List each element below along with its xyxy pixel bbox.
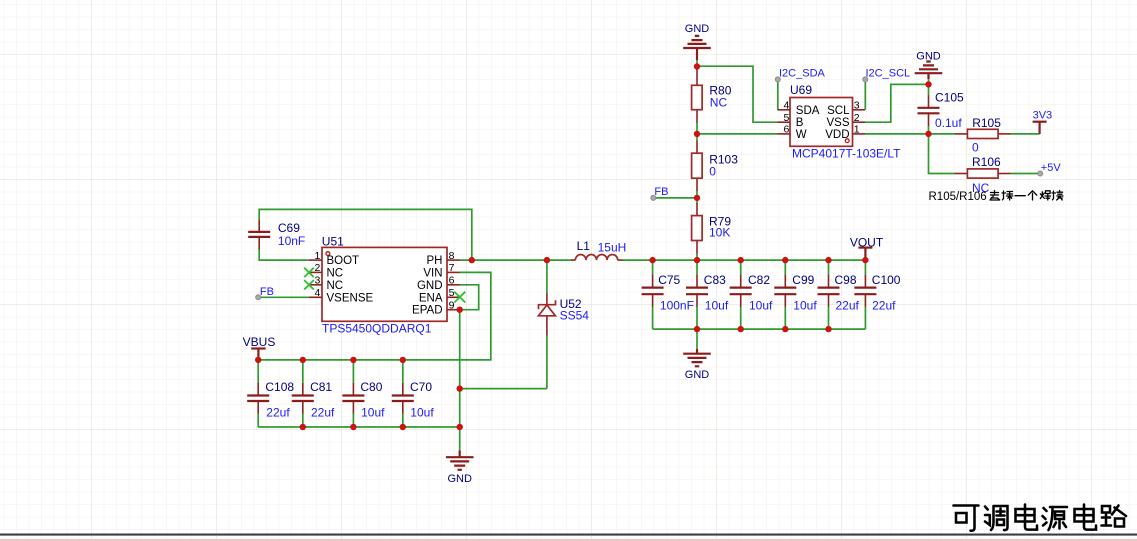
svg-text:1: 1 xyxy=(854,124,860,136)
U51 pin 4 VSENSE xyxy=(309,296,322,298)
junction node C99 bottom xyxy=(782,326,788,332)
capacitor C69 xyxy=(248,232,270,237)
wire GND4 stem xyxy=(459,427,461,457)
junction node PH xyxy=(469,257,475,263)
svg-text:B: B xyxy=(796,117,804,129)
node I2C_SDA pin dot xyxy=(775,77,780,82)
junction node VOUT xyxy=(862,257,868,263)
svg-text:BOOT: BOOT xyxy=(327,255,360,267)
svg-text:R105: R105 xyxy=(972,116,1001,130)
svg-text:10uf: 10uf xyxy=(793,299,817,313)
wire output cap C100 leads xyxy=(864,260,866,329)
title char 电 xyxy=(1016,505,1038,530)
resistor R79 xyxy=(692,216,703,241)
resistor R105 xyxy=(967,129,998,138)
capacitor C83 xyxy=(686,288,708,295)
wire GND3 stem xyxy=(696,329,698,354)
svg-text:15uH: 15uH xyxy=(598,240,627,254)
junction node W wiper xyxy=(694,131,700,137)
sheet border red line bottom edge xyxy=(0,539,1137,541)
svg-text:4: 4 xyxy=(314,287,320,299)
svg-text:10K: 10K xyxy=(709,225,730,239)
svg-text:SS54: SS54 xyxy=(560,309,590,323)
svg-text:+5V: +5V xyxy=(1041,162,1062,174)
svg-text:GND: GND xyxy=(417,280,443,292)
capacitor C100 xyxy=(854,288,876,295)
note char 接 xyxy=(1052,191,1063,201)
svg-text:FB: FB xyxy=(654,186,668,198)
U51 pin 9 EPAD xyxy=(447,309,460,311)
title char 路 xyxy=(1102,506,1127,527)
junction node VBUS/C108 xyxy=(255,357,261,363)
ground GND1 (flipped, top of R80 chain) xyxy=(683,36,711,60)
wire L1 to VOUT rail xyxy=(622,259,865,261)
wire I2C_SCL to U69 pin3 xyxy=(864,79,866,109)
junction node ground rail left xyxy=(457,424,463,430)
capacitor C108 xyxy=(247,396,269,402)
resistor R106 xyxy=(967,169,998,178)
capacitor C82 xyxy=(730,288,752,295)
junction node C81 bottom xyxy=(300,424,306,430)
wire C69 bottom lead to U51 pin1 BOOT xyxy=(259,237,309,260)
svg-text:3: 3 xyxy=(314,275,320,287)
svg-text:I2C_SCL: I2C_SCL xyxy=(866,67,911,79)
U51 pin 7 VIN xyxy=(447,271,460,273)
junction node C82 bottom xyxy=(738,326,744,332)
note char 个 xyxy=(1028,191,1037,200)
svg-text:9: 9 xyxy=(449,300,455,312)
svg-text:6: 6 xyxy=(449,275,455,287)
sheet border bottom line xyxy=(0,534,1137,536)
wire node down to R106 left lead xyxy=(929,134,968,174)
svg-text:VSENSE: VSENSE xyxy=(327,292,374,304)
svg-text:10uf: 10uf xyxy=(361,406,385,420)
capacitor C99 xyxy=(774,288,796,295)
svg-text:VSS: VSS xyxy=(826,117,849,129)
wire C70 leads xyxy=(402,360,404,427)
note char 选 xyxy=(990,191,1000,201)
svg-text:3V3: 3V3 xyxy=(1033,110,1053,122)
junction node C98 top xyxy=(825,257,831,263)
svg-text:100nF: 100nF xyxy=(660,299,694,313)
wire U51 pin6 GND loop to EPAD xyxy=(459,285,478,310)
wire R79 lead bottom xyxy=(696,241,698,261)
svg-text:U69: U69 xyxy=(790,83,812,97)
wire C105 lead top xyxy=(928,84,930,107)
no-connect flag U51 pin5 ENA xyxy=(454,292,465,303)
U69 pin 3 SCL xyxy=(853,109,866,111)
title char 调 xyxy=(985,506,1008,530)
title char 电 (second) xyxy=(1075,505,1097,530)
wire U51 pin7 VIN loop to VBUS rail xyxy=(258,272,491,360)
svg-text:VBUS: VBUS xyxy=(243,335,276,349)
wire output ground rail xyxy=(653,328,866,330)
svg-text:5: 5 xyxy=(783,112,789,124)
resistor R80 xyxy=(692,85,703,109)
svg-text:C83: C83 xyxy=(704,273,726,287)
junction node C81 top xyxy=(300,357,306,363)
svg-text:0: 0 xyxy=(972,140,979,154)
svg-text:4: 4 xyxy=(783,100,789,112)
wire diode bottom lead xyxy=(546,316,548,389)
note char 一 xyxy=(1015,195,1025,197)
svg-text:EPAD: EPAD xyxy=(412,305,442,317)
wire R80 lead top xyxy=(696,67,698,86)
op-amp U51 TPS5450QDDARQ1 body xyxy=(322,247,447,321)
svg-text:GND: GND xyxy=(685,369,710,381)
wire GND2 stem xyxy=(928,78,930,84)
wire C80 leads xyxy=(352,360,354,427)
title char 源 xyxy=(1043,507,1068,530)
svg-text:MCP4017T-103E/LT: MCP4017T-103E/LT xyxy=(792,146,901,160)
wire output cap C82 leads xyxy=(740,260,742,329)
svg-text:2: 2 xyxy=(314,262,320,274)
wire output cap C83 leads xyxy=(696,260,698,329)
svg-text:GND: GND xyxy=(685,23,710,35)
U51 pin 3 NC xyxy=(309,284,322,286)
wire R79 lead top xyxy=(696,198,698,216)
svg-text:PH: PH xyxy=(427,255,443,267)
capacitor C81 xyxy=(292,396,314,402)
capacitor C75 xyxy=(642,288,664,295)
svg-text:SDA: SDA xyxy=(796,105,820,117)
U69 pin 6 W xyxy=(778,133,791,135)
note char 焊 xyxy=(1040,191,1050,200)
svg-text:10uf: 10uf xyxy=(749,299,773,313)
power flag VOUT xyxy=(858,247,872,249)
capacitor C80 xyxy=(342,396,364,402)
node +5V pin dot xyxy=(1038,171,1043,176)
wire U69 pin1 VDD to C105 bottom node xyxy=(865,133,929,135)
wire R106 right lead to +5V xyxy=(998,173,1040,175)
wire VOUT flag stem xyxy=(864,248,866,261)
junction node C83 bottom xyxy=(694,326,700,332)
junction node FB xyxy=(694,195,700,201)
wire R103 lead bottom xyxy=(696,178,698,198)
svg-text:5: 5 xyxy=(449,287,455,299)
title char 可 xyxy=(954,506,979,531)
U51 pin 2 NC xyxy=(309,271,322,273)
svg-text:C75: C75 xyxy=(658,273,680,287)
wire output cap C98 leads xyxy=(828,260,830,329)
wire output cap C75 leads xyxy=(652,260,654,329)
svg-text:R106: R106 xyxy=(972,155,1001,169)
U69 pin 1 VDD xyxy=(853,133,866,135)
svg-text:R105/R106: R105/R106 xyxy=(929,191,987,203)
U51 pin 8 PH xyxy=(447,259,460,261)
svg-text:C108: C108 xyxy=(265,380,294,394)
resistor R103 xyxy=(692,153,703,178)
svg-text:10nF: 10nF xyxy=(278,234,305,248)
wire C105 lead bottom xyxy=(928,113,930,134)
wire FB2 label to U51 pin4 VSENSE xyxy=(258,296,309,298)
no-connect flag U51 pin2 xyxy=(304,268,314,277)
svg-text:10uf: 10uf xyxy=(410,406,434,420)
wire C69 top lead and loop to PH node xyxy=(259,209,472,260)
U51 pin 1 BOOT xyxy=(309,259,322,261)
svg-text:TPS5450QDDARQ1: TPS5450QDDARQ1 xyxy=(322,322,432,336)
svg-text:GND: GND xyxy=(916,51,941,63)
svg-text:22uf: 22uf xyxy=(266,406,290,420)
note char 择 xyxy=(1002,191,1013,200)
capacitor C70 xyxy=(392,396,414,402)
svg-text:C69: C69 xyxy=(278,221,300,235)
wire output cap C99 leads xyxy=(784,260,786,329)
U51 pin 5 ENA xyxy=(447,296,460,298)
svg-text:C82: C82 xyxy=(748,273,770,287)
svg-text:NC: NC xyxy=(327,268,344,280)
wire node to R105 left lead xyxy=(929,133,968,135)
wire R105 right lead to 3V3 xyxy=(998,133,1040,135)
junction node C80 bottom xyxy=(350,424,356,430)
svg-text:L1: L1 xyxy=(577,239,591,253)
wire C81 leads xyxy=(302,360,304,427)
svg-text:22uf: 22uf xyxy=(836,299,860,313)
wire diode top lead from PH rail xyxy=(546,260,548,304)
wire GND1 stem to R80 top node xyxy=(696,59,698,67)
junction node VDD/C105 xyxy=(925,131,931,137)
U69 pin1 marker circle xyxy=(845,139,849,143)
capacitor C105 xyxy=(918,108,940,114)
junction node diode top xyxy=(544,257,550,263)
svg-text:C100: C100 xyxy=(872,273,901,287)
wire FB label to node FB xyxy=(653,197,697,199)
junction node C70 bottom xyxy=(400,424,406,430)
junction node C83/R79 xyxy=(694,257,700,263)
svg-text:0.1uf: 0.1uf xyxy=(935,116,962,130)
junction node diode bottom xyxy=(457,385,463,391)
wire I2C_SDA to U69 pin4 xyxy=(777,79,779,109)
wire 3V3 flag stem xyxy=(1038,122,1040,134)
svg-text:22uf: 22uf xyxy=(872,299,896,313)
svg-text:8: 8 xyxy=(449,250,455,262)
wire bottom-left ground rail xyxy=(258,426,460,428)
svg-text:C98: C98 xyxy=(835,273,857,287)
ground GND2 (flipped, above C105) xyxy=(915,62,943,80)
svg-text:10uf: 10uf xyxy=(705,299,729,313)
diode U52 SS54 (schottky, cathode up) xyxy=(538,300,555,316)
svg-text:VOUT: VOUT xyxy=(850,235,884,249)
ground GND4 (below U51 EPAD rail) xyxy=(446,457,474,470)
svg-text:0: 0 xyxy=(709,164,716,178)
svg-text:I2C_SDA: I2C_SDA xyxy=(779,67,826,79)
svg-text:6: 6 xyxy=(783,124,789,136)
svg-text:W: W xyxy=(796,129,807,141)
svg-text:3: 3 xyxy=(854,100,860,112)
wire R103 lead top xyxy=(696,134,698,153)
svg-text:SCL: SCL xyxy=(827,105,850,117)
wire diode bottom to EPAD vertical xyxy=(460,388,547,390)
wire VBUS flag stem xyxy=(257,349,259,360)
svg-text:2: 2 xyxy=(854,112,860,124)
svg-text:VIN: VIN xyxy=(423,268,442,280)
no-connect flag U51 pin3 xyxy=(304,280,314,289)
junction node GND2/VSS xyxy=(925,81,931,87)
power flag 3V3 xyxy=(1033,121,1047,123)
junction node C70 top xyxy=(400,357,406,363)
svg-text:C70: C70 xyxy=(410,380,432,394)
junction node C75 top xyxy=(649,257,655,263)
power flag VBUS xyxy=(251,347,265,349)
svg-text:C80: C80 xyxy=(360,380,382,394)
svg-text:FB: FB xyxy=(260,286,274,298)
wire U51 pin8 PH to L1 xyxy=(459,259,571,261)
U51 pin 6 GND xyxy=(447,284,460,286)
capacitor C98 xyxy=(818,288,840,295)
junction node C80 top xyxy=(350,357,356,363)
svg-text:C105: C105 xyxy=(935,90,964,104)
op-amp U69 MCP4017T body xyxy=(790,98,853,147)
node FB2 pin dot (net port) xyxy=(256,295,261,300)
junction node C99 top xyxy=(782,257,788,263)
junction node C98 bottom xyxy=(825,326,831,332)
svg-text:U51: U51 xyxy=(322,234,344,248)
svg-text:C99: C99 xyxy=(792,273,814,287)
inductor L1 xyxy=(571,255,623,261)
svg-text:NC: NC xyxy=(327,280,344,292)
svg-text:C81: C81 xyxy=(310,380,332,394)
node FB pin dot (net port) xyxy=(651,195,656,200)
wire C108 leads xyxy=(257,360,259,427)
junction node R80 top xyxy=(694,63,700,69)
svg-text:7: 7 xyxy=(449,262,455,274)
svg-text:NC: NC xyxy=(710,95,728,109)
U69 pin 2 VSS xyxy=(853,121,866,123)
junction node C82 top xyxy=(738,257,744,263)
svg-text:VDD: VDD xyxy=(825,129,849,141)
node I2C_SCL pin dot xyxy=(863,77,868,82)
ground GND3 (below output caps) xyxy=(683,354,711,367)
U69 pin 4 SDA xyxy=(778,109,791,111)
svg-text:ENA: ENA xyxy=(419,292,443,304)
U69 pin 5 B xyxy=(778,121,791,123)
wire R80 bottom node to U69 pin6 W xyxy=(697,133,778,135)
svg-text:22uf: 22uf xyxy=(311,406,335,420)
wire U69 pin2 VSS to GND2 node xyxy=(865,84,929,122)
svg-text:GND: GND xyxy=(447,473,472,485)
U51 pin1 marker circle xyxy=(326,252,330,256)
wire R80 lead bottom xyxy=(696,110,698,134)
svg-text:1: 1 xyxy=(314,250,320,262)
junction node EPAD xyxy=(457,307,463,313)
wire node R80-top to U69 pin5 B xyxy=(697,66,778,122)
wire EPAD vertical down to bottom rail xyxy=(459,310,461,427)
